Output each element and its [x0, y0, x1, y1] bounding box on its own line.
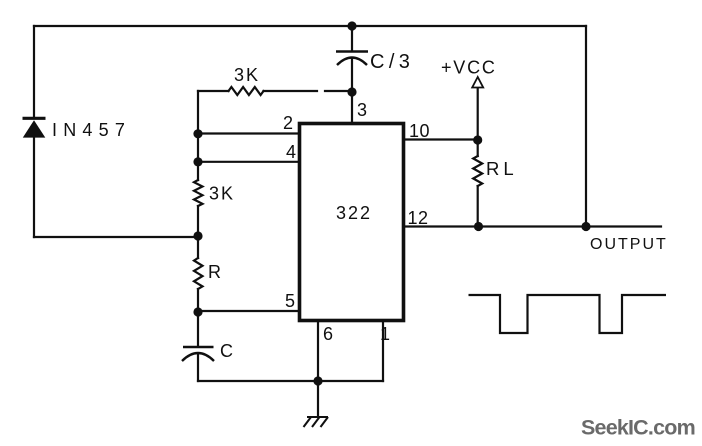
wire from RL bottom to output line: [477, 186, 479, 227]
wire bottom rail from C to pin 1 riser: [198, 380, 383, 382]
wire pin 5: [198, 310, 300, 312]
svg-text:+VCC: +VCC: [441, 58, 497, 78]
junction node ground / bottom rail: [313, 376, 322, 385]
wire pin 1 riser: [382, 322, 384, 381]
wire from C/3 bottom plate to node below: [351, 59, 353, 92]
wire left vertical from diode down to bottom-left corner: [33, 138, 35, 238]
resistor R1 3K horizontal zigzag: [229, 87, 264, 95]
junction node pin2: [193, 129, 202, 138]
svg-text:4: 4: [286, 142, 296, 162]
junction node pin10 / VCC: [473, 135, 482, 144]
wire left vertical from top rail to diode: [33, 26, 35, 117]
wire pin 6 drop: [317, 322, 319, 381]
svg-text:6: 6: [323, 324, 333, 344]
wire from node into pin 3 of U1: [351, 92, 353, 122]
diode D1 IN457: [23, 118, 46, 137]
wire from R bottom to pin5 node and down to capacitor C: [197, 289, 199, 346]
resistor R2 3K vertical zigzag: [194, 180, 203, 206]
svg-text:3K: 3K: [209, 184, 235, 204]
svg-text:2: 2: [283, 113, 293, 133]
capacitor C/3: [336, 52, 368, 66]
svg-text:OUTPUT: OUTPUT: [590, 236, 668, 253]
wire from 3K bottom to node at y=236: [197, 206, 199, 258]
svg-text:5: 5: [285, 291, 295, 311]
junction node pin5 / R bottom: [193, 307, 202, 316]
svg-text:3K: 3K: [234, 65, 260, 85]
output waveform square wave: [469, 295, 667, 333]
wire from top rail down to capacitor C/3: [351, 26, 353, 51]
svg-text:SeekIC.com: SeekIC.com: [581, 416, 695, 440]
resistor R3 R vertical zigzag: [194, 258, 203, 289]
power +VCC symbol arrow: [472, 77, 483, 88]
svg-text:322: 322: [336, 203, 372, 223]
junction node right rail / output: [581, 222, 590, 231]
wire dashed segment from 3K to pin 3 node: [264, 90, 318, 92]
wire left column from 3K stub down through pin2/pin4 nodes: [197, 91, 199, 180]
capacitor C: [182, 347, 214, 361]
svg-text:C/3: C/3: [370, 51, 414, 73]
wire pin 12 output line: [404, 225, 661, 227]
wire pin 10: [404, 138, 478, 140]
wire +VCC stem down to pin 10 node: [477, 88, 479, 140]
wire dash continuation into node: [325, 90, 350, 92]
svg-text:C: C: [220, 341, 233, 361]
junction node at left rail / R: [193, 231, 202, 240]
wire right vertical from top rail to output line: [585, 26, 587, 227]
junction node below C/3: [347, 87, 356, 96]
wire pin 2: [198, 132, 300, 134]
wire pin 4: [198, 161, 300, 163]
svg-text:RL: RL: [486, 158, 518, 179]
wire bottom-left horizontal to node at R string: [34, 236, 198, 238]
wire left stub of 3K feedback resistor: [198, 90, 229, 92]
wire ground stem: [317, 381, 319, 416]
svg-text:1: 1: [380, 324, 390, 344]
junction node RL / output: [474, 222, 483, 231]
svg-text:3: 3: [357, 100, 367, 120]
svg-text:R: R: [208, 262, 221, 282]
resistor RL vertical zigzag: [473, 156, 482, 186]
wire top horizontal rail: [34, 25, 586, 27]
wire from pin10 node down to RL: [477, 140, 479, 156]
svg-text:12: 12: [408, 208, 429, 228]
svg-text:IN457: IN457: [52, 120, 131, 140]
junction node at top rail / C3: [347, 21, 356, 30]
op-amp U1 322 timer box: [300, 124, 404, 321]
ground: [304, 417, 329, 427]
wire from capacitor C bottom plate down to bottom rail: [197, 354, 199, 381]
svg-text:10: 10: [409, 121, 430, 141]
junction node pin4: [193, 157, 202, 166]
